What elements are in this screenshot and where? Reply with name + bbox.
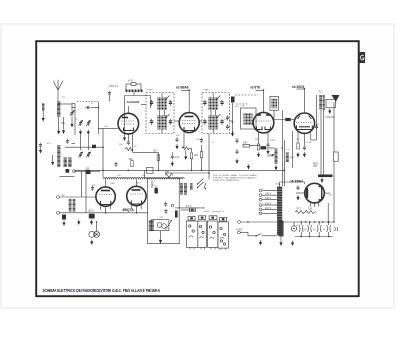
svg-text:ALTE: ALTE (236, 228, 243, 232)
svg-text:POS. NT NORM. GIRAD. TV-FONO: POS. NT NORM. GIRAD. TV-FONO CAMBIO (213, 174, 258, 177)
svg-text:v3 6T8: v3 6T8 (250, 86, 260, 90)
svg-text:SCHEMA ELETTRICO DEI RADIORICE: SCHEMA ELETTRICO DEI RADIORICEVITORI G.B… (43, 288, 161, 293)
svg-text:v2 6BA6: v2 6BA6 (176, 86, 189, 90)
svg-text:470K: 470K (270, 140, 276, 142)
svg-text:5M: 5M (255, 139, 258, 141)
svg-text:v4 35C5: v4 35C5 (292, 85, 304, 89)
svg-text:PU: PU (160, 217, 163, 219)
svg-text:22K: 22K (243, 142, 248, 145)
svg-text:140 V: 140 V (265, 197, 272, 200)
svg-text:150: 150 (308, 208, 313, 211)
svg-text:27K: 27K (235, 106, 239, 108)
svg-text:4,7K: 4,7K (128, 80, 133, 83)
svg-text:OM: OM (104, 126, 108, 128)
svg-text:v5 35W4: v5 35W4 (290, 180, 303, 184)
svg-text:BC: BC (62, 122, 66, 125)
svg-text:75K: 75K (165, 171, 170, 174)
svg-text:47K: 47K (176, 135, 180, 137)
svg-text:(=: (= (330, 193, 333, 197)
svg-text:NTE DR C. DAL CAMBIO DISCHI T: NTE DR C. DAL CAMBIO DISCHI TA RADIO (213, 177, 257, 180)
svg-text:Dalle ... posizioni 1-4: Dalle ... posizioni 1-4 (204, 211, 225, 213)
svg-text:100n: 100n (110, 183, 116, 185)
svg-text:1M: 1M (153, 150, 156, 153)
svg-text:VT1: VT1 (297, 208, 302, 211)
svg-text:T.MF.1: T.MF.1 (147, 90, 154, 92)
svg-text:125 A: 125 A (88, 210, 95, 213)
svg-text:T.MF.2: T.MF.2 (203, 90, 210, 92)
svg-text:MED: MED (290, 157, 295, 159)
svg-text:150: 150 (313, 165, 318, 168)
svg-text:2M: 2M (142, 175, 145, 177)
svg-text:1a ECH81: 1a ECH81 (127, 100, 140, 104)
svg-text:10K: 10K (129, 158, 134, 161)
svg-text:T.A.: T.A. (276, 182, 281, 186)
svg-text:TRA 12: TRA 12 (109, 84, 118, 88)
svg-text:T.R.: T.R. (241, 106, 245, 108)
svg-text:6BQ7A: 6BQ7A (123, 208, 135, 212)
svg-text:T.U.: T.U. (319, 90, 324, 94)
svg-text:FUNZ. POS. GIRADISCHI: FUNZ. POS. GIRADISCHI (213, 179, 239, 182)
svg-text:22K: 22K (194, 154, 199, 157)
svg-text:6,3 V: 6,3 V (186, 205, 192, 208)
svg-text:125 V: 125 V (265, 202, 272, 205)
svg-text:110 V: 110 V (265, 207, 271, 210)
svg-text:1MEG: 1MEG (267, 155, 274, 158)
svg-text:160 V: 160 V (265, 193, 272, 196)
svg-text:0,01: 0,01 (175, 156, 180, 159)
